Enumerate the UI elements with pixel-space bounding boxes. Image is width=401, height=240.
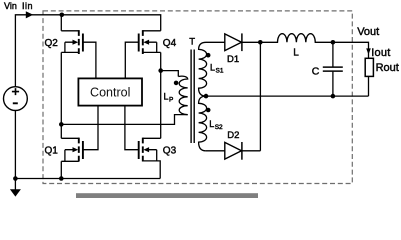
- svg-text:D1: D1: [227, 54, 239, 65]
- wire: Rout bottom to return: [368, 76, 370, 96]
- transformer core T: [191, 50, 194, 144]
- phase dot LS1: [206, 53, 211, 58]
- resistor Rout: [365, 58, 373, 76]
- svg-text:Q1: Q1: [45, 146, 59, 157]
- svg-text:Vout: Vout: [357, 26, 379, 38]
- svg-text:Q4: Q4: [163, 38, 177, 49]
- svg-text:Q2: Q2: [45, 38, 59, 49]
- svg-text:Iin: Iin: [22, 1, 33, 11]
- svg-text:L: L: [293, 48, 299, 59]
- wire: source bottom to ground rail: [15, 111, 160, 179]
- node: C bottom junction: [331, 94, 336, 99]
- svg-text:Iout: Iout: [371, 47, 390, 59]
- wire: top input rail: [15, 15, 160, 87]
- svg-text:D2: D2: [227, 130, 239, 141]
- inductor LS1 secondary winding: [199, 42, 207, 96]
- transistor Q3: [125, 106, 161, 179]
- svg-text:P: P: [169, 97, 173, 104]
- inductor LS2 secondary winding: [199, 96, 207, 151]
- wire: D2 cathode up to D1 node: [259, 42, 261, 151]
- wire: right leg midpoint to primary top: [161, 71, 179, 77]
- gray scrollbar: [76, 193, 258, 198]
- arrow Iin on top rail: [26, 11, 33, 18]
- control block U1: [78, 78, 142, 105]
- svg-text:Control: Control: [90, 86, 130, 100]
- svg-text:L: L: [209, 119, 214, 129]
- voltage source V1: [4, 87, 28, 111]
- transistor Q1: [61, 106, 98, 162]
- diode D1: [225, 34, 242, 51]
- node: top rail junction: [60, 13, 65, 18]
- transistor Q2: [61, 30, 96, 78]
- svg-text:L: L: [164, 92, 169, 102]
- svg-text:Rout: Rout: [376, 62, 399, 74]
- svg-text:L: L: [210, 62, 215, 72]
- node: D1/D2 cathodes: [258, 40, 263, 45]
- wire: center tap to output return: [206, 95, 369, 97]
- svg-text:Q3: Q3: [163, 146, 177, 157]
- node: L to C junction: [331, 40, 336, 45]
- phase dot LS2: [206, 108, 211, 113]
- arrow Iout: [366, 48, 371, 54]
- svg-text:Vin: Vin: [4, 1, 17, 11]
- svg-text:T: T: [189, 36, 195, 47]
- node: left leg midpoint: [59, 122, 64, 127]
- inductor L output filter: [260, 34, 333, 43]
- wire: output top to Rout: [333, 42, 369, 58]
- node: center tap: [204, 94, 209, 99]
- wire: right leg vertical: [160, 52, 162, 138]
- svg-text:S2: S2: [215, 124, 223, 131]
- ground: [14, 179, 16, 191]
- svg-text:S1: S1: [216, 67, 224, 74]
- capacitor C: [332, 42, 334, 66]
- node: right leg midpoint: [158, 68, 163, 73]
- phase dot primary: [174, 81, 179, 86]
- node: ground junction: [13, 176, 18, 181]
- diode D2: [225, 142, 242, 159]
- wire: LS2 to D2: [206, 150, 225, 152]
- wire: left leg midpoint to primary bottom: [61, 115, 187, 125]
- transistor Q4: [125, 30, 160, 78]
- node: Q1 source on ground rail: [59, 176, 64, 181]
- wire: left leg vertical: [60, 15, 62, 31]
- inductor LP primary winding: [178, 76, 187, 114]
- svg-text:C: C: [312, 66, 320, 78]
- converter dashed boundary box: [43, 11, 352, 184]
- wire: LS1 to D1: [206, 41, 225, 43]
